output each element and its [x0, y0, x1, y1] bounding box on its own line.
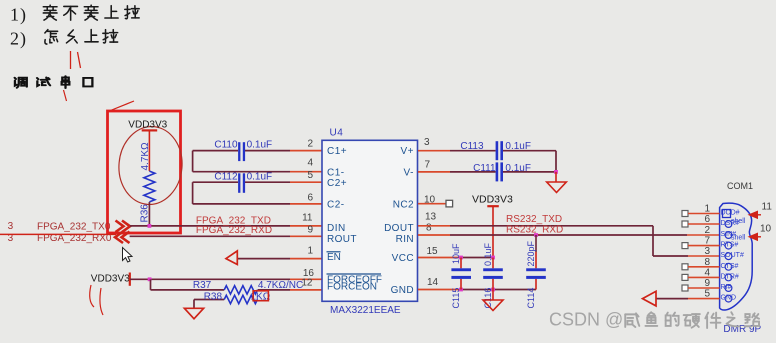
svg-text:SOUT#: SOUT#	[721, 252, 744, 259]
svg-text:11: 11	[302, 212, 313, 223]
svg-text:R36: R36	[140, 204, 151, 223]
svg-text:VDD3V3: VDD3V3	[91, 274, 130, 285]
svg-text:COM1: COM1	[727, 181, 753, 191]
svg-text:V+: V+	[400, 146, 414, 157]
svg-text:DCD#: DCD#	[721, 210, 740, 217]
svg-text:4.7KΩ: 4.7KΩ	[140, 142, 151, 171]
svg-text:C111: C111	[473, 163, 496, 174]
svg-text:shell: shell	[731, 234, 746, 241]
svg-text:5: 5	[307, 170, 313, 181]
svg-text:FORCEON: FORCEON	[327, 282, 377, 293]
svg-text:12: 12	[301, 278, 313, 289]
svg-text:FPGA_232_RXD: FPGA_232_RXD	[196, 225, 272, 236]
svg-text:U4: U4	[330, 128, 344, 139]
svg-text:V-: V-	[404, 167, 414, 178]
svg-text:220pF: 220pF	[526, 240, 536, 266]
svg-text:8: 8	[426, 223, 432, 234]
svg-text:0.1uF: 0.1uF	[247, 172, 273, 183]
svg-text:0.1uF: 0.1uF	[247, 140, 273, 151]
svg-text:4: 4	[704, 267, 710, 278]
svg-text:14: 14	[427, 277, 439, 288]
svg-text:3: 3	[704, 246, 710, 257]
svg-text:4: 4	[307, 158, 313, 169]
svg-text:7: 7	[425, 160, 431, 171]
svg-text:10uF: 10uF	[451, 243, 461, 264]
svg-text:RS232_TXD: RS232_TXD	[506, 214, 562, 225]
svg-text:MAX3221EEAE: MAX3221EEAE	[330, 305, 401, 316]
svg-text:RI#: RI#	[721, 284, 732, 291]
svg-text:C114: C114	[526, 288, 536, 309]
svg-text:FPGA_232_TX0: FPGA_232_TX0	[37, 221, 111, 232]
svg-text:R37: R37	[193, 280, 212, 291]
svg-text:C2+: C2+	[327, 178, 347, 189]
svg-text:C1+: C1+	[327, 146, 347, 157]
svg-text:C2-: C2-	[327, 200, 345, 211]
svg-text:DIN: DIN	[327, 223, 346, 234]
svg-text:15: 15	[427, 246, 439, 257]
svg-text:CTS#: CTS#	[721, 263, 739, 270]
svg-text:8: 8	[704, 257, 710, 268]
svg-text:3: 3	[424, 137, 430, 148]
svg-text:2: 2	[307, 139, 313, 150]
svg-text:EN: EN	[327, 252, 341, 263]
svg-text:C112: C112	[214, 172, 238, 183]
svg-text:10: 10	[760, 224, 772, 235]
svg-text:13: 13	[425, 212, 437, 223]
svg-text:ROUT: ROUT	[327, 234, 357, 245]
svg-text:9: 9	[307, 224, 313, 235]
svg-text:RTS#: RTS#	[721, 242, 739, 249]
svg-text:1: 1	[307, 246, 313, 257]
svg-text:C113: C113	[460, 141, 484, 152]
svg-text:2: 2	[10, 29, 19, 49]
svg-text:VCC: VCC	[392, 253, 414, 264]
svg-text:6: 6	[704, 214, 710, 225]
svg-text:0.1uF: 0.1uF	[483, 242, 493, 266]
svg-text:0.1uF: 0.1uF	[505, 141, 531, 152]
svg-text:2: 2	[704, 225, 710, 236]
svg-text:DOUT: DOUT	[384, 223, 414, 234]
svg-text:VDD3V3: VDD3V3	[472, 193, 513, 205]
svg-text:C1-: C1-	[327, 167, 345, 178]
svg-text:DTR#: DTR#	[721, 273, 739, 280]
svg-text:shell: shell	[731, 218, 746, 225]
svg-text:NC2: NC2	[393, 200, 414, 211]
svg-text:GND: GND	[721, 295, 737, 302]
svg-text:9: 9	[704, 278, 710, 289]
svg-text:): )	[20, 5, 26, 26]
svg-text:1: 1	[10, 5, 19, 25]
svg-text:C110: C110	[214, 140, 238, 151]
svg-text:): )	[20, 29, 26, 50]
svg-text:4.7KΩ/NC: 4.7KΩ/NC	[258, 280, 303, 291]
svg-text:1: 1	[704, 204, 710, 215]
svg-text:3: 3	[8, 221, 14, 232]
svg-text:6: 6	[307, 192, 313, 203]
svg-text:VDD3V3: VDD3V3	[128, 119, 167, 130]
svg-text:CSDN @: CSDN @	[549, 310, 623, 330]
svg-text:11: 11	[762, 202, 773, 213]
svg-text:0.1uF: 0.1uF	[505, 163, 531, 174]
svg-text:GND: GND	[391, 285, 414, 296]
svg-text:C115: C115	[451, 288, 461, 309]
svg-text:7: 7	[704, 236, 710, 247]
svg-text:RIN: RIN	[396, 234, 414, 245]
svg-text:R38: R38	[204, 291, 223, 302]
